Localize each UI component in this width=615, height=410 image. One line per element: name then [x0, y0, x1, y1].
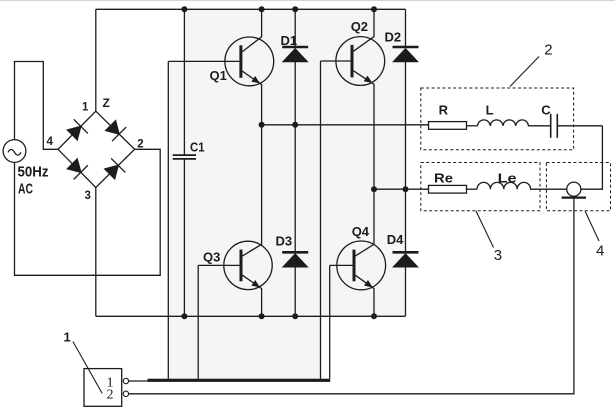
bridge rectifier Z diamond — [58, 111, 135, 187]
svg-text:4: 4 — [596, 243, 604, 260]
leader line callout 1 — [73, 342, 102, 394]
inductor Le — [477, 182, 567, 189]
svg-text:Q3: Q3 — [203, 250, 220, 265]
wire Q3 gate drive — [197, 265, 199, 378]
svg-text:2: 2 — [544, 42, 552, 59]
wire Q2 gate drive — [320, 61, 322, 379]
svg-text:D3: D3 — [276, 234, 293, 249]
bridge diode 4-1 — [65, 119, 88, 142]
svg-text:1: 1 — [64, 330, 71, 345]
svg-text:1: 1 — [82, 101, 89, 113]
current sensor — [562, 182, 586, 197]
capacitor C1 — [173, 9, 196, 316]
svg-text:Q4: Q4 — [352, 224, 370, 239]
wire AC source bottom terminal to bridge node 2 — [15, 149, 161, 275]
transistor Q2 — [321, 9, 385, 189]
svg-text:D4: D4 — [387, 232, 404, 247]
dashed box 4 sensor — [546, 163, 610, 211]
wire top DC rail — [96, 8, 406, 10]
junction C1 top rail — [181, 6, 187, 12]
junction Q1 collector top rail — [259, 6, 265, 12]
wire Q1 gate drive — [167, 61, 169, 378]
junction Q2 collector top rail — [371, 6, 377, 12]
capacitor C — [551, 114, 603, 138]
junction C1 bottom rail — [181, 313, 187, 319]
junction node A D1 anode — [292, 122, 298, 128]
drive bus thick wire — [148, 379, 331, 382]
leader line callout 3 — [476, 211, 494, 248]
junction Q3 emitter bottom rail — [259, 313, 265, 319]
resistor Re — [429, 185, 478, 193]
wire bottom DC rail — [96, 315, 406, 317]
svg-text:50Hz: 50Hz — [18, 164, 49, 181]
svg-text:4: 4 — [47, 136, 54, 148]
transistor Q4 — [330, 189, 386, 316]
diode D4 — [393, 189, 419, 316]
svg-text:D2: D2 — [385, 30, 402, 45]
wire C to sensor — [581, 126, 603, 189]
wire pin1 to drive bus — [129, 380, 148, 382]
junction node A Q1 emitter — [259, 122, 265, 128]
junction node B D2 anode — [403, 186, 409, 192]
diode D1 — [282, 9, 308, 125]
wire sensor output to controller pin2 — [129, 198, 574, 394]
svg-text:L: L — [486, 103, 494, 118]
svg-text:R: R — [439, 103, 449, 118]
svg-text:C1: C1 — [190, 140, 205, 155]
inductor L — [478, 120, 551, 126]
wire AC source top terminal to bridge node 4 — [15, 62, 59, 150]
wire bridge node 3 to bottom rail — [95, 188, 97, 317]
svg-text:2: 2 — [107, 388, 114, 403]
svg-text:2: 2 — [137, 139, 143, 151]
svg-text:Le: Le — [498, 170, 517, 185]
svg-text:D1: D1 — [281, 33, 298, 48]
wire node A to load — [262, 124, 429, 126]
svg-text:3: 3 — [494, 247, 502, 264]
transistor Q1 — [168, 9, 273, 125]
svg-text:Q1: Q1 — [210, 68, 227, 83]
bridge diode 1-2 — [104, 119, 127, 142]
wire bridge node 1 to top rail — [95, 9, 97, 111]
svg-text:Z: Z — [103, 96, 110, 110]
svg-text:Re: Re — [434, 170, 453, 185]
dashed box 2 RLC branch — [421, 88, 574, 150]
resistor R — [429, 122, 478, 130]
AC source 50Hz — [3, 140, 26, 163]
bridge diode 3-2 — [103, 158, 126, 181]
svg-text:C: C — [541, 103, 551, 118]
dashed box 3 ReLe branch — [421, 163, 540, 211]
terminal pin 1 — [123, 378, 128, 383]
junction D1 top rail — [292, 6, 298, 12]
junction D3 bottom rail — [292, 313, 298, 319]
svg-text:Q2: Q2 — [351, 19, 368, 34]
wire node B to load — [374, 188, 429, 190]
leader line callout 2 — [510, 57, 539, 87]
svg-text:AC: AC — [18, 180, 33, 197]
terminal pin 2 — [123, 391, 128, 396]
diode D3 — [282, 125, 308, 316]
shaded driver region — [168, 9, 405, 378]
leader line callout 4 — [585, 211, 599, 241]
junction Q4 emitter bottom rail — [371, 313, 377, 319]
svg-text:3: 3 — [85, 190, 91, 202]
controller box 1 — [84, 369, 122, 407]
transistor Q3 — [198, 125, 272, 316]
wire Q4 gate drive — [329, 265, 331, 378]
diode D2 — [393, 9, 419, 189]
bridge diode 4-3 — [65, 157, 88, 180]
junction node B Q2 emitter — [371, 186, 377, 192]
scan edge artifact — [0, 0, 615, 2]
